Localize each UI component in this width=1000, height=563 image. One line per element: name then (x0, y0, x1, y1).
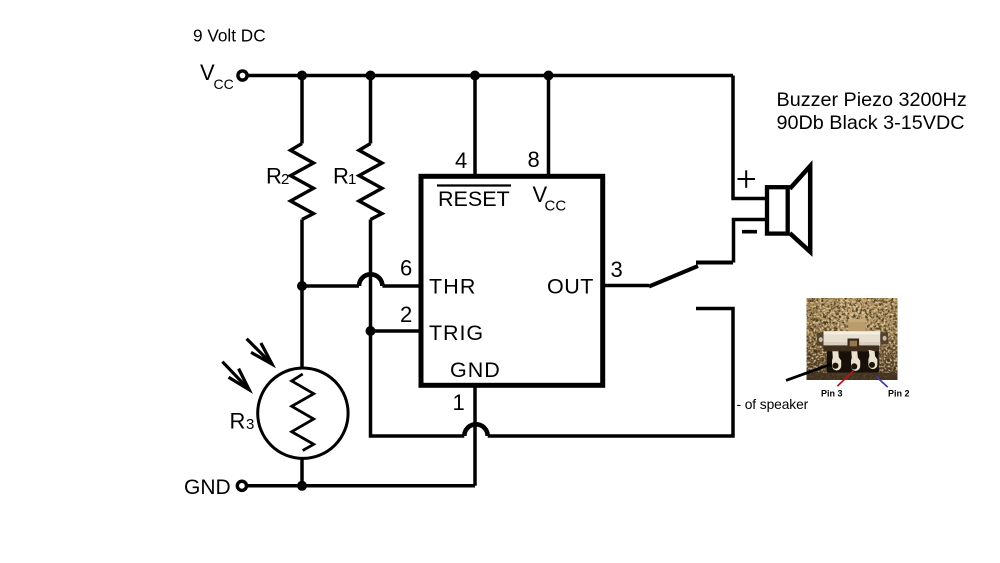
svg-text:- of speaker: - of speaker (737, 397, 809, 412)
label R3 (230, 409, 255, 434)
label RESET with overline (437, 186, 511, 212)
wire pin 8 (547, 76, 551, 177)
label: Buzzer Piezo 3200Hz 90Db Black 3-15VDC (777, 89, 967, 134)
annotation black line to pin (786, 364, 831, 380)
wire top rail (247, 74, 733, 78)
wire from top rail down to speaker plus (733, 76, 765, 199)
photo of slide switch (807, 298, 898, 380)
photoresistor R3 zigzag (292, 374, 314, 451)
wire R2 bottom lead to node A (300, 220, 304, 369)
svg-text:Pin 2: Pin 2 (888, 389, 910, 399)
svg-text:4: 4 (455, 148, 467, 173)
svg-text:3: 3 (246, 416, 254, 433)
svg-text:2: 2 (400, 302, 412, 327)
junction node at R2 top (297, 71, 307, 81)
junction node at pin 8 (544, 71, 554, 81)
terminal VCC (200, 60, 247, 92)
wire GND rail (247, 484, 476, 488)
wire TRIG stub (371, 329, 422, 333)
label R1 (333, 164, 356, 189)
speaker buzzer LS1 (767, 166, 810, 252)
svg-text:8: 8 (528, 147, 540, 172)
photoresistor R3 circle (258, 368, 348, 458)
minus sign speaker (742, 230, 757, 234)
switch S1 blade (649, 266, 698, 287)
light arrow 2 (222, 362, 249, 390)
switch S1 upper contact (696, 261, 733, 265)
svg-text:CC: CC (214, 76, 234, 92)
plus sign speaker (738, 170, 756, 188)
wire R1 bottom lead to TRIG node (369, 220, 373, 332)
junction node at R1 top (366, 71, 376, 81)
junction node A on R2 wire (297, 281, 307, 291)
svg-text:OUT: OUT (547, 275, 594, 299)
svg-text:GND: GND (184, 476, 231, 499)
svg-text:TRIG: TRIG (429, 321, 484, 345)
svg-text:RESET: RESET (438, 187, 510, 211)
svg-text:R: R (333, 164, 349, 189)
svg-text:90Db Black 3-15VDC: 90Db Black 3-15VDC (777, 112, 965, 134)
svg-text:2: 2 (281, 171, 289, 188)
resistor R1 (359, 144, 382, 220)
wire pin 1 GND (473, 386, 477, 486)
svg-text:R: R (230, 409, 246, 434)
svg-text:R: R (266, 164, 282, 189)
light arrow 1 (247, 339, 273, 365)
svg-text:9 Volt DC: 9 Volt DC (193, 26, 266, 46)
junction node R3 bottom (297, 481, 307, 491)
label VCC pin 8 inside (533, 182, 567, 215)
IC U1 555 timer body (421, 176, 603, 385)
svg-text:GND: GND (450, 358, 501, 382)
label R2 (266, 164, 289, 189)
junction node TRIG (366, 326, 376, 336)
wire from TRIG node down and right to switch contact, hop over pin 1 wire (371, 309, 734, 437)
svg-text:3: 3 (611, 257, 623, 282)
wire R3 bottom lead (300, 459, 304, 486)
wire pin 4 (473, 76, 477, 177)
annotation red line (837, 371, 853, 386)
svg-text:1: 1 (348, 171, 356, 188)
svg-text:6: 6 (400, 256, 412, 281)
junction node at pin 4 (470, 71, 480, 81)
wire THR from node A with hop over R1 wire (302, 274, 421, 286)
svg-text:1: 1 (453, 390, 465, 415)
wire R1 top lead (369, 76, 373, 144)
svg-text:THR: THR (429, 275, 477, 299)
wire OUT pin 3 (603, 284, 649, 288)
terminal GND (184, 476, 246, 499)
svg-text:Pin 3: Pin 3 (821, 389, 843, 399)
resistor R2 (291, 144, 314, 220)
annotation blue line (876, 377, 887, 388)
svg-text:Buzzer Piezo 3200Hz: Buzzer Piezo 3200Hz (777, 89, 967, 111)
wire R2 top lead (300, 76, 304, 144)
svg-text:CC: CC (545, 198, 567, 215)
wire speaker minus lead (734, 220, 766, 263)
